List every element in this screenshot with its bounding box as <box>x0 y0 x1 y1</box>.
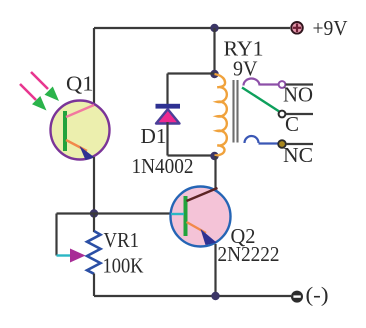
svg-text:1N4002: 1N4002 <box>132 154 194 178</box>
wire C black lead <box>286 113 314 115</box>
wire Q1 emitter down <box>93 157 95 214</box>
node Q1/VR1/Q2 base <box>90 209 98 217</box>
relay NC contact arc <box>245 136 259 143</box>
wire D1 bottom horizontal <box>168 154 215 156</box>
potentiometer VR1 zigzag <box>87 231 101 274</box>
svg-text:D1: D1 <box>141 124 167 148</box>
wire NO purple lead <box>260 83 280 85</box>
wire VR1 top stub <box>93 214 95 233</box>
wire D1 top horizontal <box>168 72 215 74</box>
VR1 wiper arrow <box>70 249 86 263</box>
pin NC terminal <box>278 140 286 148</box>
relay armature green <box>242 88 280 113</box>
node relay bottom <box>210 152 218 160</box>
relay NO contact arc <box>244 79 260 86</box>
wire bottom rail <box>94 295 291 297</box>
wire relay bottom to Q2 collector <box>214 156 216 190</box>
light arrow 2 <box>20 84 47 111</box>
wire NC blue lead <box>259 142 280 144</box>
pin NO terminal <box>279 81 286 88</box>
svg-text:2N2222: 2N2222 <box>218 242 280 266</box>
wire top rail <box>94 27 290 29</box>
relay coil RY1 <box>215 74 227 156</box>
transistor Q2 <box>171 187 231 247</box>
node top rail / relay branch <box>210 24 218 32</box>
terminal +9V <box>291 22 303 34</box>
wire VR1 bottom stub <box>93 274 95 297</box>
wire VR1 wiper branch top <box>57 212 95 214</box>
svg-text:100K: 100K <box>103 254 144 278</box>
wire Q2 emitter down <box>214 244 216 296</box>
wire NO black lead <box>286 83 314 85</box>
wire VR1 wiper branch left <box>55 214 57 256</box>
wire wiper cyan <box>57 254 72 256</box>
wire NC black lead <box>286 143 313 145</box>
svg-text:(-): (-) <box>306 283 329 307</box>
svg-text:NC: NC <box>283 143 313 167</box>
svg-text:C: C <box>285 112 299 136</box>
terminal (-) <box>291 291 303 303</box>
diode D1 <box>156 104 181 124</box>
node bottom rail / Q2 emitter <box>211 292 219 300</box>
pin C terminal <box>279 111 286 118</box>
wire D1 left vertical lower <box>166 122 168 156</box>
wire D1 left vertical upper <box>166 74 168 105</box>
wire relay feed vertical <box>213 28 215 74</box>
wire base link to Q2 <box>94 212 172 214</box>
wire left vertical to Q1 collector <box>93 28 95 105</box>
svg-text:+9V: +9V <box>313 16 348 40</box>
svg-text:Q1: Q1 <box>66 72 94 96</box>
svg-text:VR1: VR1 <box>104 228 140 252</box>
relay core lines <box>232 80 234 143</box>
light arrow 1 <box>31 72 59 101</box>
svg-text:9V: 9V <box>233 57 258 81</box>
svg-text:NO: NO <box>283 83 313 107</box>
transistor Q1 <box>51 101 110 161</box>
node relay top <box>210 70 218 78</box>
